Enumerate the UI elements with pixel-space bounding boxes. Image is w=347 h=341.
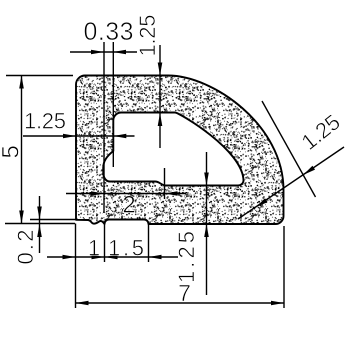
dim 1.25 bottom xyxy=(206,152,208,295)
svg-text:1.25: 1.25 xyxy=(24,109,66,134)
svg-text:1.25: 1.25 xyxy=(135,15,160,57)
svg-text:7: 7 xyxy=(178,280,191,306)
svg-text:0.2: 0.2 xyxy=(13,230,38,265)
svg-text:5: 5 xyxy=(0,145,25,158)
svg-text:2: 2 xyxy=(122,192,135,219)
dim 2 xyxy=(66,193,186,195)
dim 0.2 xyxy=(39,196,41,253)
dim 0.33 top xyxy=(70,51,137,53)
svg-text:1: 1 xyxy=(88,236,100,261)
svg-text:1.5: 1.5 xyxy=(108,236,144,261)
dim 1.25 top right xyxy=(159,45,161,148)
dim 1.25 right angled xyxy=(238,147,344,219)
dim 7 xyxy=(76,302,285,304)
profile body (seal cross-section, stippled fill) xyxy=(76,76,284,225)
svg-text:1.25: 1.25 xyxy=(297,109,345,155)
svg-text:0.33: 0.33 xyxy=(84,18,134,46)
dims 1 / 1.5 xyxy=(47,256,178,258)
dim 5 left xyxy=(21,76,23,224)
dim 1.25 left xyxy=(23,135,135,137)
